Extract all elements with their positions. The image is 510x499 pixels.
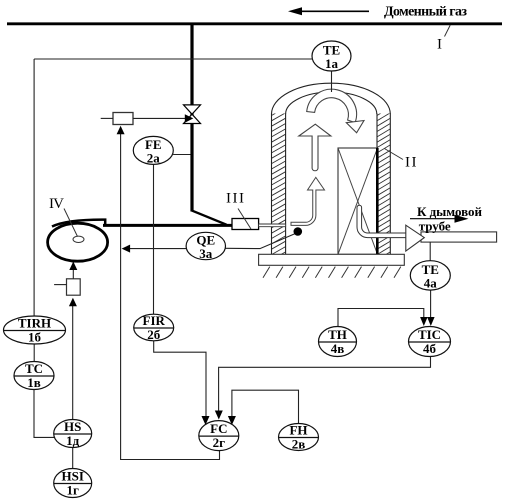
base plate / foundation slab	[259, 254, 405, 265]
left signal riser	[33, 59, 35, 316]
wire TIRH to TC	[33, 344, 35, 362]
blower IV hub	[73, 236, 84, 242]
wire QE to sample point	[226, 233, 297, 248]
svg-text:2б: 2б	[147, 327, 161, 342]
svg-text:2в: 2в	[292, 437, 306, 452]
wire FIR to FC with arrow	[154, 341, 206, 418]
wire flue duct to TE4a	[429, 242, 431, 261]
instrument FH 2в	[279, 424, 319, 451]
stove dome outer arc	[272, 83, 391, 114]
svg-text:IV: IV	[49, 196, 64, 212]
svg-text:2г: 2г	[213, 435, 226, 450]
svg-text:TIRH: TIRH	[18, 316, 51, 331]
valve actuator box	[113, 113, 133, 125]
wire FE2a down to FIR	[153, 164, 155, 314]
burner inlet curved arrow (flame path)	[291, 177, 325, 225]
instrument TE 1a	[312, 41, 351, 71]
svg-text:4б: 4б	[423, 341, 437, 356]
combustion air pipe from blower to burner	[103, 224, 233, 227]
hand actuator box	[67, 279, 81, 295]
svg-text:HSI: HSI	[61, 469, 83, 484]
instrument TC 1в	[14, 362, 54, 390]
leader line for node I	[445, 25, 451, 36]
node II leader line	[384, 149, 403, 160]
svg-text:TH: TH	[328, 327, 347, 342]
wire TH to TIC with arrow	[338, 309, 424, 327]
actuator left stub	[101, 117, 113, 119]
svg-text:4a: 4a	[424, 275, 438, 290]
flow-direction arrow on gas header	[296, 10, 369, 12]
svg-text:трубе: трубе	[419, 219, 451, 234]
actuator-to-valve signal with arrow	[133, 117, 186, 119]
control valve on gas branch	[184, 105, 201, 114]
gas branch pipe (thick vertical)	[190, 24, 193, 212]
instrument QE 3a	[186, 232, 225, 259]
svg-text:FH: FH	[289, 423, 307, 438]
wire FE2a to gas pipe	[173, 154, 190, 156]
actuator to blower arrow	[72, 270, 74, 279]
svg-text:FIR: FIR	[143, 313, 166, 328]
wire FC output to valve actuator with arrow	[121, 132, 220, 460]
instrument HS 1д	[54, 420, 92, 448]
gas pipe diagonal into burner	[191, 210, 226, 224]
svg-text:FC: FC	[210, 421, 227, 436]
instrument TIRH 1б	[4, 316, 66, 344]
leader line for blower IV	[64, 209, 78, 237]
wire TIC to FC with arrow	[219, 357, 431, 418]
wire FH to FC with arrow	[232, 390, 299, 423]
svg-text:К дымовой: К дымовой	[417, 204, 483, 219]
svg-text:TIC: TIC	[418, 327, 441, 342]
svg-text:Доменный газ: Доменный газ	[384, 5, 467, 20]
svg-text:II: II	[405, 155, 417, 171]
burner III body	[232, 219, 259, 230]
stove dome inner arc	[286, 92, 377, 114]
svg-text:1б: 1б	[28, 330, 42, 345]
exhaust pipe from checkerwork to flue	[357, 205, 407, 237]
instrument FIR 2б	[134, 314, 174, 341]
instrument TIC 4б	[409, 327, 451, 357]
flue duct to chimney	[421, 232, 497, 242]
hand actuator left stub	[54, 284, 66, 286]
wire HS to HSI	[72, 448, 74, 469]
instrument FE 2a	[133, 136, 173, 164]
svg-text:III: III	[226, 191, 244, 207]
svg-text:2a: 2a	[147, 150, 161, 165]
instrument TH 4в	[319, 327, 357, 357]
svg-text:HS: HS	[64, 419, 81, 434]
instrument TE 4a	[410, 261, 450, 290]
wire HS up to hand actuator with arrow	[72, 306, 74, 420]
blower IV volute casing	[52, 220, 105, 227]
wire TE4a to TIC with arrow	[430, 290, 432, 319]
leader line for burner III	[238, 209, 251, 230]
dome circulation curved arrow	[307, 89, 357, 122]
svg-text:1д: 1д	[66, 433, 80, 448]
svg-text:1a: 1a	[325, 56, 339, 71]
wire TE1a to stove dome	[331, 71, 333, 92]
interior hot-gas up arrow	[299, 124, 331, 171]
wire TE1a to left riser	[34, 58, 312, 60]
svg-text:3a: 3a	[199, 246, 213, 261]
flue hollow arrow	[406, 225, 425, 251]
main blast-furnace gas header pipe	[7, 22, 502, 25]
svg-text:1г: 1г	[66, 483, 79, 498]
checkerwork (rect with X)	[338, 148, 378, 254]
svg-text:TC: TC	[25, 361, 43, 376]
svg-text:1в: 1в	[27, 375, 41, 390]
instrument FC 2г	[199, 421, 239, 451]
instrument HSI 1г	[54, 469, 92, 498]
ground hatching	[263, 267, 401, 278]
gas sampling point (dot)	[294, 227, 303, 236]
wire TC to HS elbow	[34, 390, 55, 438]
svg-text:4в: 4в	[331, 341, 345, 356]
wire QE to FC-actuator line with arrow	[129, 248, 186, 250]
burner outlet double line through wall	[259, 224, 286, 227]
svg-text:I: I	[437, 37, 442, 53]
blower IV impeller housing	[48, 223, 108, 261]
